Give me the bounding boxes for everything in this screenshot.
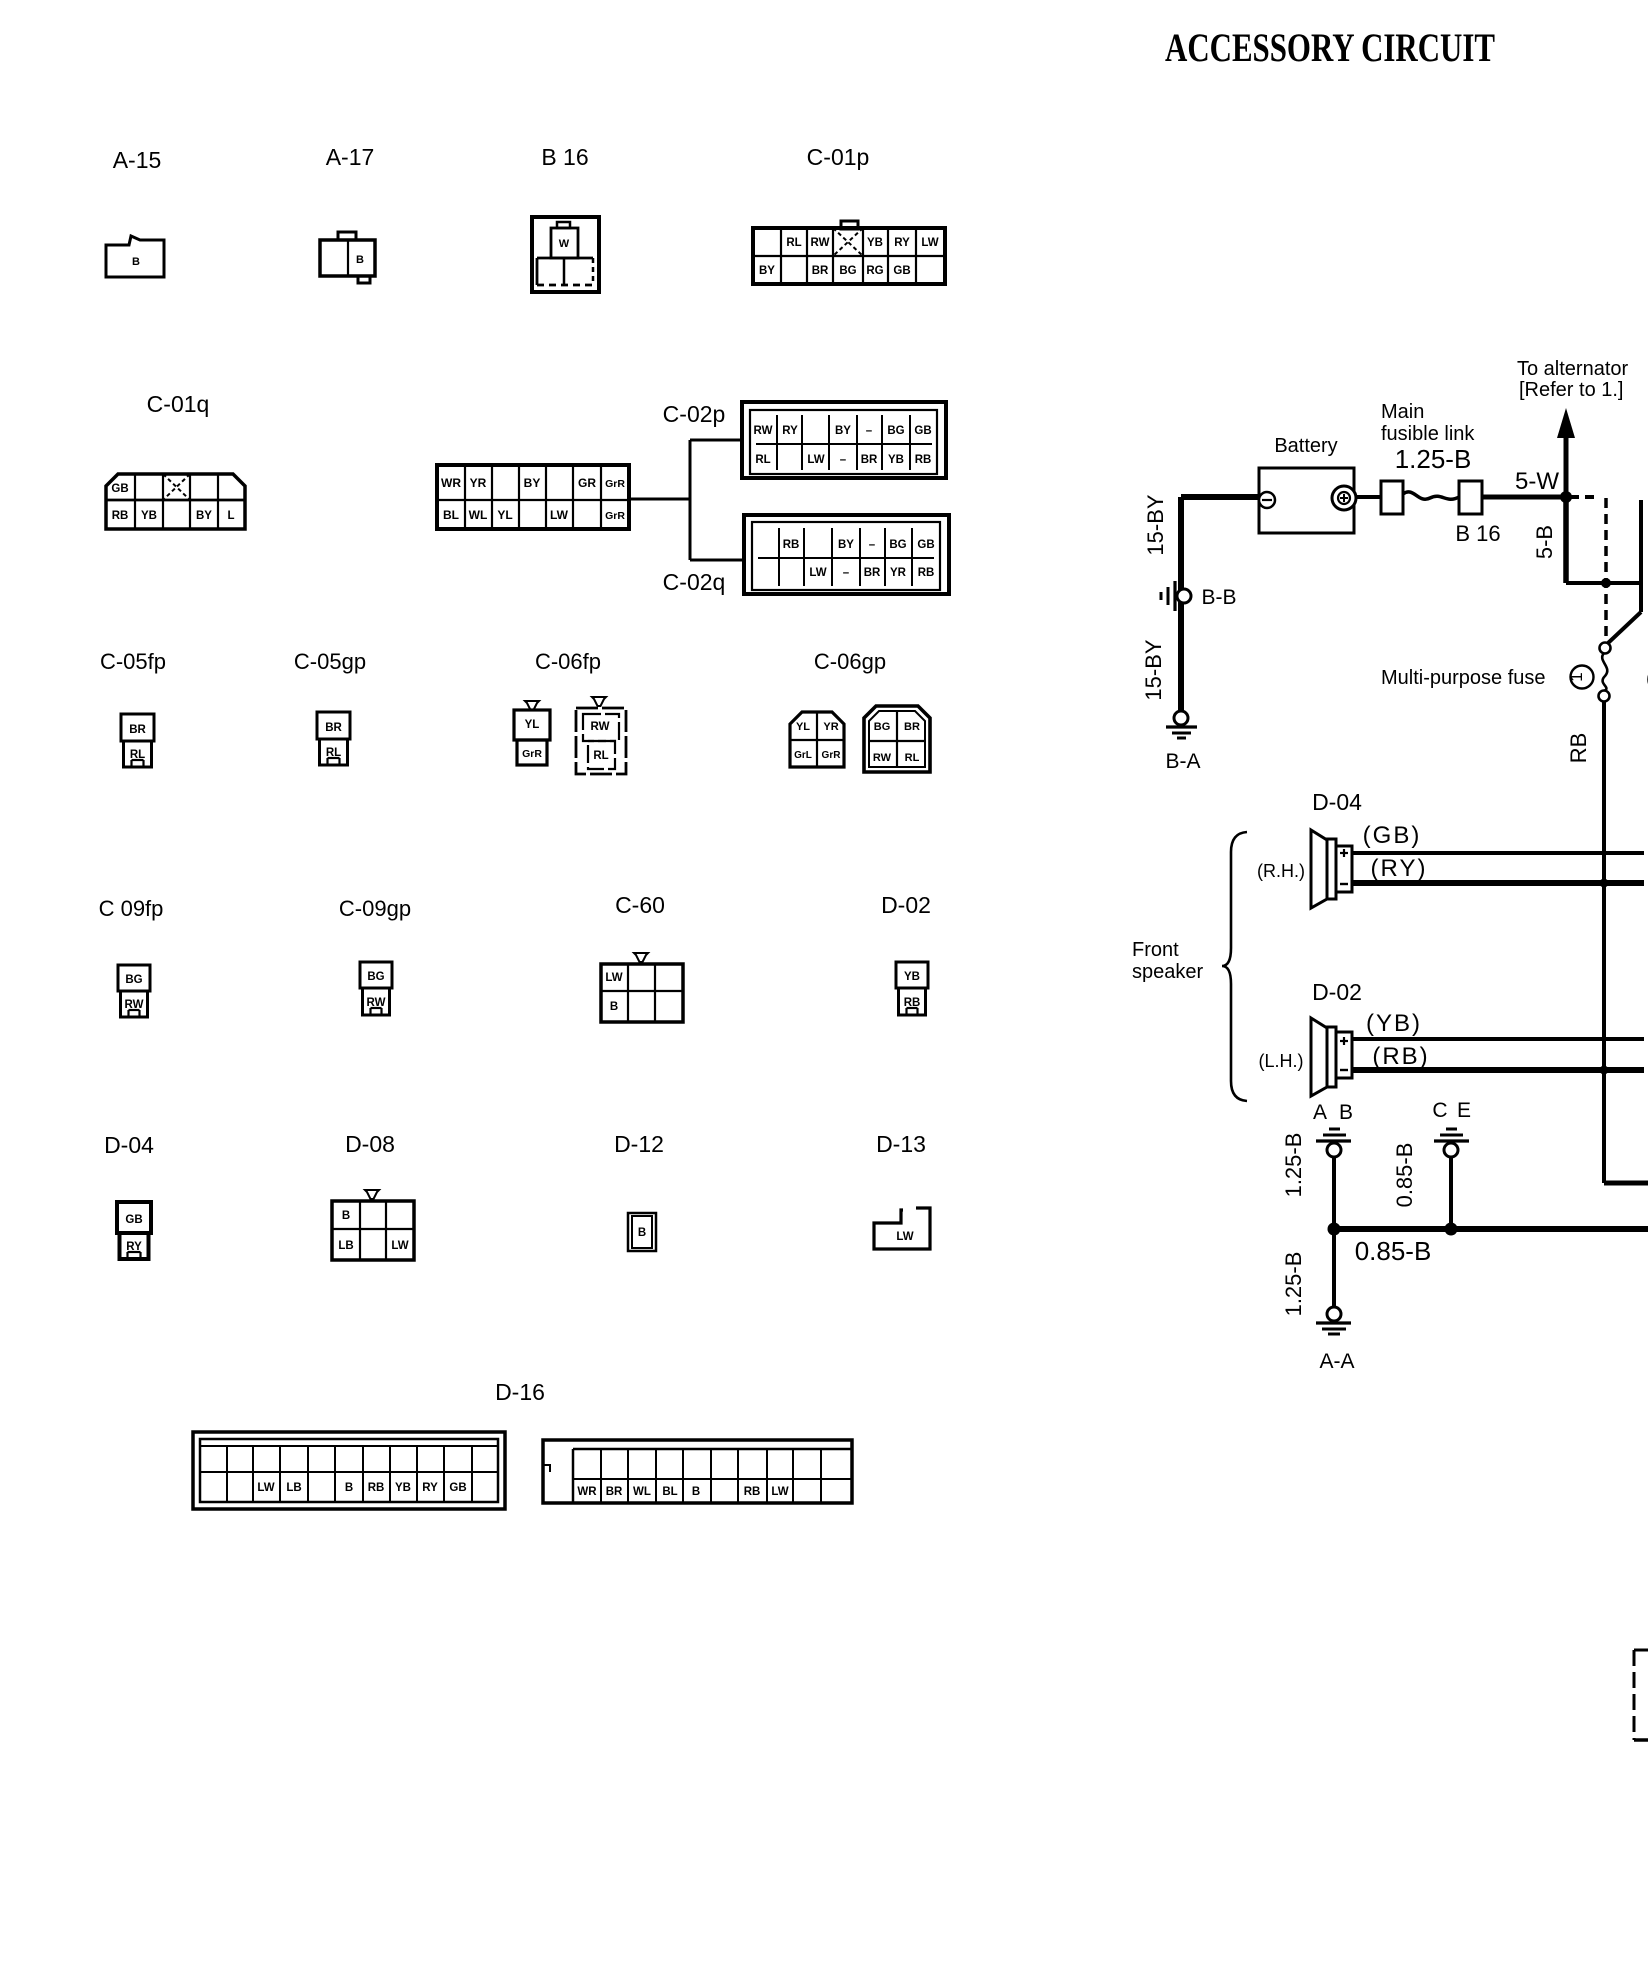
wire (RY) [1352,880,1644,886]
ground bus 0.85-B [1334,1226,1648,1232]
svg-text:C-01p: C-01p [807,144,870,170]
svg-text:–: – [866,425,873,437]
svg-text:LW: LW [921,237,938,249]
connector D-08 [365,1190,379,1199]
svg-text:WL: WL [469,508,488,522]
svg-text:C-06fp: C-06fp [535,649,601,674]
svg-text:YB: YB [904,971,920,983]
svg-text:RB: RB [783,539,800,551]
wire (RB) [1352,1067,1644,1073]
svg-text:C-02q: C-02q [663,569,726,595]
svg-text:(L.H.): (L.H.) [1259,1051,1304,1071]
svg-text:RL: RL [130,749,145,761]
main fusible link [1381,481,1403,514]
svg-text:B: B [1339,1101,1353,1124]
svg-text:RL: RL [755,454,770,466]
brace front speaker [1222,832,1247,1101]
svg-text:A: A [1313,1101,1327,1124]
ground A-A [1327,1307,1341,1321]
svg-text:1.25-B: 1.25-B [1395,444,1472,474]
svg-text:RY: RY [894,237,910,249]
wire 1.25-B to bus [1332,1157,1336,1229]
svg-text:BL: BL [443,508,459,522]
connector B 16 [532,217,599,292]
svg-text:–: – [840,454,847,466]
wire 5-W [1482,495,1566,500]
wire (GB) [1352,851,1644,855]
svg-text:RB: RB [915,454,932,466]
svg-text:RW: RW [591,721,610,733]
svg-text:BY: BY [838,539,854,551]
svg-text:YL: YL [796,721,810,733]
svg-text:YR: YR [823,721,838,733]
svg-text:YL: YL [525,719,540,731]
svg-text:RY: RY [126,1241,142,1253]
svg-text:GrL: GrL [794,750,812,761]
connector D-13 [874,1208,930,1249]
svg-text:BR: BR [129,724,146,736]
svg-text:GB: GB [917,539,934,551]
svg-text:LW: LW [771,1486,788,1498]
svg-text:E: E [1457,1099,1471,1122]
svg-text:RW: RW [754,425,773,437]
battery minus terminal [1259,492,1275,508]
svg-text:D-16: D-16 [495,1379,545,1405]
svg-text:RW: RW [125,999,144,1011]
svg-text:D-04: D-04 [104,1132,154,1158]
svg-text:B: B [610,1001,618,1013]
svg-text:RW: RW [811,237,830,249]
svg-text:BY: BY [835,425,851,437]
svg-text:A-17: A-17 [326,144,375,170]
svg-text:YB: YB [867,237,883,249]
svg-text:B: B [342,1210,350,1222]
svg-text:GrR: GrR [605,478,625,490]
svg-text:RL: RL [326,747,341,759]
svg-text:L: L [227,510,234,522]
svg-text:RB: RB [918,567,935,579]
svg-text:BG: BG [125,974,142,986]
svg-text:–: – [843,567,850,579]
svg-text:B: B [356,254,364,266]
svg-text:LB: LB [338,1240,353,1252]
svg-text:LW: LW [896,1231,913,1243]
svg-text:C-02p: C-02p [663,401,726,427]
svg-text:WR: WR [441,476,461,490]
svg-text:RY: RY [782,425,798,437]
svg-text:B-B: B-B [1201,586,1236,609]
connector D-16 (right housing) [543,1440,852,1503]
svg-text:LW: LW [391,1240,408,1252]
svg-text:WR: WR [577,1486,597,1498]
svg-text:C-05fp: C-05fp [100,649,166,674]
connector D-02 (pinout) [896,962,928,988]
svg-text:1.25-B: 1.25-B [1281,1252,1306,1317]
svg-text:Battery: Battery [1274,435,1337,457]
wire battery minus to ground (15-BY) [1181,494,1259,500]
svg-text:BR: BR [864,567,881,579]
connector C-05fp [121,714,154,741]
svg-text:B: B [132,256,140,268]
C-01q crossed cell [163,474,190,500]
svg-text:YL: YL [497,508,512,522]
svg-text:GrR: GrR [605,510,625,522]
svg-text:RB: RB [904,997,921,1009]
svg-text:LW: LW [605,972,622,984]
svg-text:YB: YB [888,454,904,466]
connector C-01p [841,221,858,229]
svg-text:A-A: A-A [1319,1350,1354,1373]
svg-text:YB: YB [141,510,157,522]
svg-text:BR: BR [904,721,920,733]
svg-text:D-12: D-12 [614,1131,664,1157]
svg-text:LW: LW [550,508,569,522]
svg-text:B: B [692,1486,700,1498]
svg-text:[Refer to 1.]: [Refer to 1.] [1519,379,1624,401]
battery [1259,468,1354,533]
svg-text:D-08: D-08 [345,1131,395,1157]
svg-text:ACCESSORY CIRCUIT: ACCESSORY CIRCUIT [1165,25,1495,70]
connector D-12 [628,1213,656,1251]
connector C-06fp (left half) [525,701,539,710]
wire battery plus to fusible link [1356,495,1381,499]
svg-text:D-02: D-02 [1312,979,1362,1005]
svg-text:GB: GB [893,265,910,277]
connector C-09fp [118,965,150,991]
svg-text:BG: BG [887,425,904,437]
svg-text:To alternator: To alternator [1517,358,1629,380]
ground B-A [1174,711,1188,725]
connector A-15 [106,236,164,277]
svg-text:fusible link: fusible link [1381,423,1475,445]
svg-text:1: 1 [1567,672,1586,681]
svg-text:Front: Front [1132,939,1179,961]
connector C-02p [742,402,946,478]
svg-text:BY: BY [759,265,775,277]
speaker D-04 (R.H.) [1311,830,1327,908]
arrow to alternator [1564,438,1569,500]
svg-text:GB: GB [914,425,931,437]
svg-text:RB: RB [1566,733,1591,764]
svg-text:BR: BR [606,1486,623,1498]
svg-text:(RY): (RY) [1371,855,1428,882]
svg-text:(R.H.): (R.H.) [1257,861,1305,881]
wire 1.25-B to ground A-A [1332,1229,1336,1308]
switch blade [1607,612,1641,644]
svg-text:B 16: B 16 [541,144,588,170]
partial connector box at right edge [1634,1649,1648,1652]
svg-text:Main: Main [1381,401,1424,423]
svg-text:C-09gp: C-09gp [339,896,411,921]
svg-text:–: – [869,539,876,551]
svg-text:C-06gp: C-06gp [814,649,886,674]
svg-text:D-13: D-13 [876,1131,926,1157]
svg-text:RB: RB [368,1482,385,1494]
wire switch feed [1639,500,1643,612]
wire RB [1602,701,1606,1183]
svg-text:C-60: C-60 [615,892,665,918]
multi-purpose fuse [1600,643,1611,654]
svg-text:D-02: D-02 [881,892,931,918]
svg-text:(YB): (YB) [1366,1010,1422,1037]
svg-text:RG: RG [866,265,883,277]
svg-text:BG: BG [839,265,856,277]
svg-text:BY: BY [196,510,212,522]
svg-text:GB: GB [449,1482,466,1494]
svg-text:C-05gp: C-05gp [294,649,366,674]
connector C-60 [634,953,648,962]
svg-text:BY: BY [524,476,541,490]
svg-text:LW: LW [807,454,824,466]
svg-text:GR: GR [578,476,596,490]
svg-text:RL: RL [786,237,801,249]
svg-text:BR: BR [812,265,829,277]
connector C-01q [106,474,245,529]
junction dots on RB bus [1600,879,1609,888]
svg-text:YB: YB [395,1482,411,1494]
battery plus terminal [1332,486,1356,510]
connector D-04 (pinout) [117,1202,151,1233]
svg-text:GrR: GrR [522,748,542,760]
svg-text:BG: BG [889,539,906,551]
svg-text:RB: RB [744,1486,761,1498]
svg-text:RB: RB [112,510,129,522]
svg-text:W: W [559,238,570,250]
svg-text:YR: YR [890,567,907,579]
svg-text:C-01q: C-01q [147,391,210,417]
speaker D-02 (L.H.) [1311,1018,1327,1096]
svg-text:B: B [638,1227,646,1239]
svg-text:B-A: B-A [1165,750,1200,773]
svg-text:RL: RL [905,752,920,764]
svg-text:B: B [345,1482,353,1494]
connector C-09gp [360,962,392,988]
connector C-06gp (right half) [864,706,930,772]
svg-text:BL: BL [662,1486,677,1498]
svg-text:0.85-B: 0.85-B [1392,1143,1417,1208]
connector D-16 (left housing) [193,1432,505,1509]
svg-text:LB: LB [286,1482,301,1494]
dashed wire to accessory [1604,498,1608,637]
svg-text:GrR: GrR [822,750,842,761]
svg-text:BR: BR [861,454,878,466]
svg-text:15-BY: 15-BY [1141,639,1166,700]
svg-text:RY: RY [422,1482,438,1494]
svg-text:D-04: D-04 [1312,789,1362,815]
svg-text:YR: YR [470,476,487,490]
svg-text:0.85-B: 0.85-B [1355,1236,1432,1266]
connector A-17 [320,240,375,276]
wire (YB) [1352,1037,1644,1041]
wire C-02 branch [629,498,690,501]
svg-text:RW: RW [873,752,892,764]
svg-text:(GB): (GB) [1363,822,1422,849]
svg-text:RW: RW [367,997,386,1009]
svg-text:BR: BR [325,722,342,734]
svg-text:LW: LW [809,567,826,579]
svg-text:C: C [1432,1099,1447,1122]
connector C-06fp (right half) [592,697,606,706]
wire 5-B [1563,497,1569,583]
svg-text:BG: BG [874,721,891,733]
connector C-05gp [317,712,350,739]
connector C-06gp (left half) [790,712,844,767]
fuse number 1 [1571,666,1594,689]
C-01p crossed cell [833,228,863,256]
svg-text:A-15: A-15 [113,147,162,173]
svg-text:LW: LW [257,1482,274,1494]
svg-text:speaker: speaker [1132,961,1203,983]
svg-text:WL: WL [633,1486,651,1498]
svg-text:B 16: B 16 [1455,521,1500,546]
ground B-B [1173,581,1176,611]
svg-text:(RB): (RB) [1372,1043,1429,1070]
connector C-02 body [437,465,629,529]
svg-text:5-B: 5-B [1532,525,1557,559]
connector C-02q [744,515,949,594]
svg-text:GB: GB [125,1214,142,1226]
svg-text:BG: BG [367,971,384,983]
svg-text:15-BY: 15-BY [1143,494,1168,555]
ground A-B [1329,1128,1340,1131]
svg-text:1.25-B: 1.25-B [1281,1133,1306,1198]
svg-text:GB: GB [111,483,128,495]
wire 0.85-B to bus [1449,1157,1453,1229]
svg-text:5-W: 5-W [1515,468,1559,495]
svg-text:C 09fp: C 09fp [99,896,164,921]
svg-text:Multi-purpose fuse: Multi-purpose fuse [1381,667,1546,689]
svg-text:RL: RL [593,750,608,762]
ground C-E [1446,1128,1457,1131]
